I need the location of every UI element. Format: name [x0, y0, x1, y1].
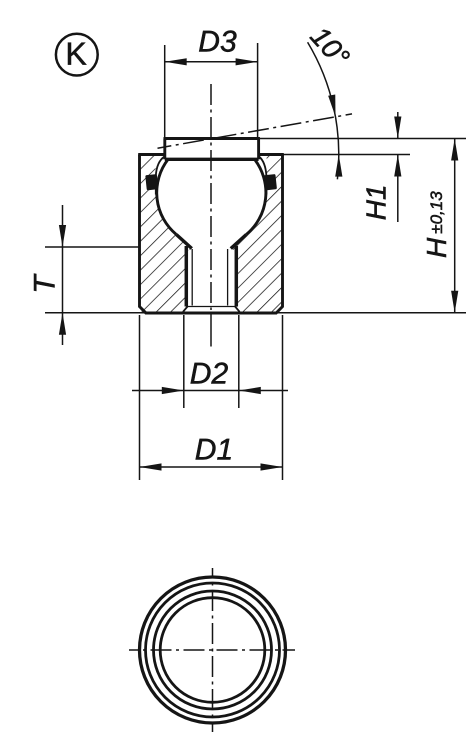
- ball pad left side: [163, 139, 166, 160]
- dimension D2 line: [132, 390, 288, 392]
- tilt axis dash-dot 10deg: [158, 114, 353, 148]
- snap ring left: [145, 174, 158, 190]
- dimension H1 line: [397, 112, 399, 139]
- bottom chamfer left: [183, 307, 188, 312]
- hatched section material right: [231, 155, 283, 313]
- bottom face thin extension line: [45, 312, 466, 314]
- svg-text:D1: D1: [195, 433, 233, 466]
- svg-text:D3: D3: [198, 25, 237, 58]
- dimension D2 extensions: [183, 315, 185, 408]
- block top face right: [259, 153, 284, 156]
- funnel cone right: [231, 235, 247, 249]
- thread bore left thick: [185, 246, 189, 307]
- block top reference line right (H1): [276, 154, 410, 156]
- dimension D1 extensions: [139, 315, 141, 480]
- bottom chamfer edge line: [186, 306, 236, 308]
- socket lip wall right: [259, 157, 266, 195]
- funnel cone left: [176, 235, 192, 249]
- thread major right thin: [227, 249, 229, 306]
- angle arc 10deg: [308, 42, 339, 179]
- socket recess edge: [165, 158, 259, 161]
- ball sphere arc left: [157, 159, 177, 234]
- dimension D3 extension right: [257, 43, 259, 138]
- socket lip wall left: [156, 157, 165, 195]
- snap ring right: [264, 174, 277, 190]
- block bottom face: [146, 312, 276, 315]
- ball pad top: [164, 137, 260, 140]
- thread major left thin: [191, 249, 193, 306]
- dimension H line: [454, 139, 456, 313]
- svg-text:D2: D2: [190, 357, 229, 390]
- dimension D3 line: [165, 61, 258, 63]
- svg-text:H1: H1: [361, 184, 392, 220]
- centerline main vertical: [210, 84, 212, 310]
- T top reference line left: [45, 246, 140, 248]
- svg-text:K: K: [65, 36, 86, 72]
- top view outer circle: [140, 577, 286, 723]
- svg-text:H±0,13: H±0,13: [421, 191, 452, 258]
- top view centerline vertical: [212, 568, 214, 732]
- ball pad right side: [257, 139, 260, 160]
- dimension D3 extension left: [164, 45, 166, 138]
- top view chamfer circle: [146, 583, 280, 717]
- pad top reference line right: [259, 138, 466, 140]
- top view pad circle: [160, 598, 265, 703]
- dimension T line: [62, 205, 64, 345]
- top view centerline horizontal: [129, 649, 295, 651]
- dimension D1 line: [140, 466, 283, 468]
- K symbol circle: [56, 34, 98, 76]
- thread bore right thick: [235, 246, 239, 307]
- block outline: [140, 155, 283, 314]
- bottom chamfer right: [235, 307, 240, 312]
- top view socket circle: [154, 591, 272, 709]
- svg-text:10°: 10°: [304, 21, 355, 73]
- svg-text:T: T: [29, 273, 62, 294]
- ball sphere arc right: [246, 159, 266, 234]
- hatched section material left: [140, 155, 192, 313]
- block top face left: [138, 153, 165, 156]
